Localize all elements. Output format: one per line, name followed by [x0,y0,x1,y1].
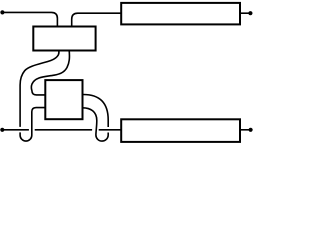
wire bottom rail middle segment [35,129,92,131]
wire rising from under bottom rail to X2 right upper pin (right half of loop) [83,95,109,128]
node terminal bottom-right [249,128,253,132]
component R2 (long box bottom-right) [121,119,240,142]
wire from X2 right lower pin down under bottom rail (left half of loop) [83,108,109,141]
wire from X1 bottom pin 1 looping under bottom rail to X2 left lower pin [20,51,59,142]
wire from R1 right pin to top-right terminal [240,12,250,14]
wire from top-left terminal to X1 top pin 1 [2,12,57,26]
wire from X1 bottom pin 2 to X2 left upper pin [31,51,69,95]
wire bottom rail segment from bottom-left terminal [2,129,29,131]
node terminal bottom-left [0,128,4,132]
node terminal top-left [0,10,4,14]
component X1 (wide box top-left) [33,27,95,51]
wire from R2 right pin to bottom-right terminal [240,129,251,131]
wire from X1 top pin 2 to R1 left pin [72,13,122,26]
component R1 (long box top-right) [121,3,240,25]
wire bottom rail segment into R2 left pin [99,129,122,131]
node terminal top-right [248,11,252,15]
component X2 (square box middle-left) [45,80,82,119]
